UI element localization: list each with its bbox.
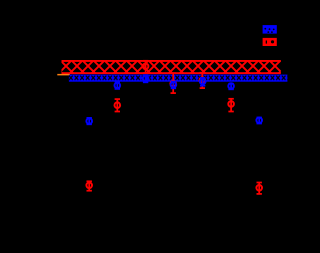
B2 [115,82,121,90]
blue band [69,75,288,82]
orange line segment [57,74,70,76]
R7 [256,182,262,194]
B4 [171,81,177,88]
legend red patch [263,38,277,46]
R3 [143,61,149,74]
B6 [228,83,234,89]
R5 [200,72,206,88]
R4 [170,73,176,94]
B1 [86,118,92,125]
R2 [115,99,121,112]
blue error bar markers [86,75,262,125]
B7 [256,117,262,124]
B5 [200,78,206,86]
B3 [143,75,149,83]
red hatched band [62,60,281,74]
R6 [228,99,234,112]
R1 [86,181,92,191]
red error bar markers [86,61,262,195]
legend blue patch [263,25,277,33]
